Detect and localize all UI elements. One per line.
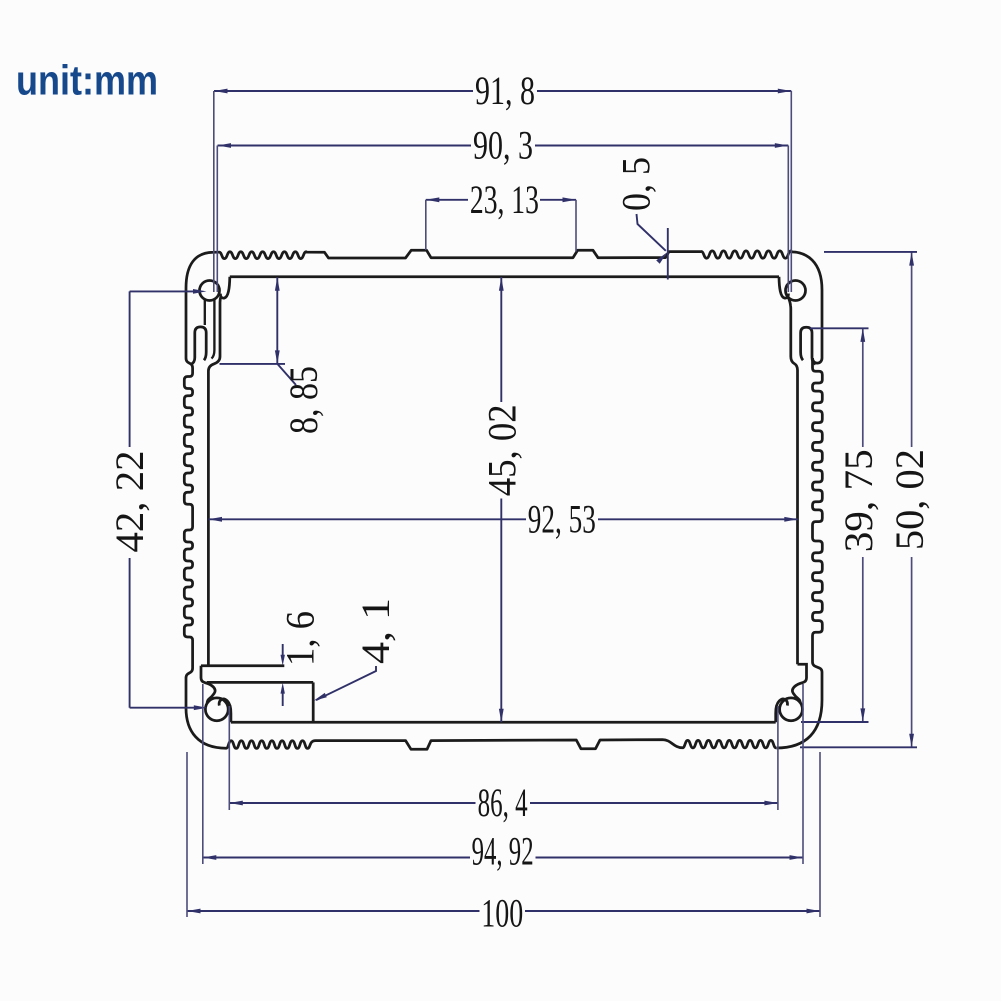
dim 1,6 text — [278, 611, 323, 666]
dim 90,3 text — [473, 123, 533, 168]
dim 86,4 ext left — [228, 706, 230, 810]
dim 94,92 text — [472, 828, 534, 873]
dim 50,02 ext top — [824, 251, 917, 253]
top-left slot lip and tail — [208, 277, 229, 371]
dim 90,3 line — [218, 143, 789, 148]
inner top edge — [230, 275, 779, 278]
dim 94,92 ext right — [802, 684, 804, 864]
bottom-right inner wall jog — [792, 664, 806, 703]
dim 1,6 lower — [281, 683, 285, 706]
top-right screw hole — [786, 281, 806, 301]
svg-text:39, 75: 39, 75 — [836, 449, 881, 552]
dim 42,22 ext top — [130, 289, 207, 294]
profile outer contour top — [186, 250, 822, 363]
bottom-right slot right lip — [776, 699, 788, 722]
left wall upper step — [186, 288, 193, 368]
svg-text:42, 22: 42, 22 — [107, 451, 152, 553]
dim 100 text — [481, 890, 523, 935]
svg-text:0, 5: 0, 5 — [614, 157, 659, 211]
svg-text:92, 53: 92, 53 — [528, 496, 596, 541]
right inner wall — [796, 370, 799, 664]
dim 100 ext left — [186, 752, 188, 917]
dim 91,8 ext right — [790, 91, 792, 292]
dim 42,22 text — [107, 451, 152, 553]
dim 92,53 text — [528, 496, 596, 541]
dim 4,1 text — [353, 598, 398, 664]
dim 23,13 text — [470, 177, 539, 222]
dim 0,5 text — [614, 157, 659, 211]
bottom edge with serrations — [186, 708, 776, 749]
svg-text:90, 3: 90, 3 — [473, 123, 533, 168]
svg-text:unit:mm: unit:mm — [16, 58, 158, 104]
dim 23,13 ext right — [575, 200, 577, 252]
dim 39,75 text — [836, 449, 881, 552]
unit label — [16, 58, 158, 104]
left wall fin teeth — [184, 368, 192, 668]
dim 4,1 leader — [314, 666, 376, 701]
left wall lower step — [186, 668, 193, 708]
dim 0,5 tick — [667, 228, 669, 280]
dim 100 line — [187, 909, 820, 914]
dim 42,22 ext bottom — [130, 705, 208, 710]
svg-text:86, 4: 86, 4 — [478, 780, 528, 825]
dim 100 ext right — [819, 752, 821, 917]
dim 91,8 line — [214, 89, 791, 94]
svg-text:45, 02: 45, 02 — [479, 404, 524, 496]
dim 23,13 line — [426, 197, 576, 202]
dim 86,4 line — [229, 801, 778, 806]
dim 45,02 text — [479, 404, 524, 496]
dim 39,75 ext top — [810, 327, 869, 329]
dim 8,85 text — [281, 366, 326, 434]
top-left hollow bulge — [191, 327, 206, 364]
dim 86,4 text — [478, 780, 528, 825]
pcb shelf bottom line — [207, 681, 313, 684]
svg-text:91, 8: 91, 8 — [475, 68, 535, 113]
dim 23,13 ext left — [425, 200, 427, 250]
bottom-left slot right lip — [219, 699, 231, 722]
dim 90,3 ext right — [787, 146, 789, 293]
right wall lower + bottom-right corner — [776, 662, 822, 748]
dim 94,92 line — [203, 855, 803, 860]
svg-text:4, 1: 4, 1 — [353, 598, 398, 664]
dim 91,8 text — [475, 68, 535, 113]
dim 39,75 line — [860, 328, 865, 722]
dim 42,22 line — [129, 291, 131, 707]
dim 50,02 line — [909, 252, 914, 747]
top-left screw hole — [200, 281, 220, 301]
left inner wall — [207, 371, 210, 666]
svg-text:1, 6: 1, 6 — [278, 611, 323, 666]
top-right slot lip and tail — [779, 277, 798, 370]
bottom-left slot left lip — [201, 666, 215, 704]
dim 8,85 ext bottom — [220, 363, 286, 365]
dim 94,92 ext left — [202, 684, 204, 864]
svg-text:8, 85: 8, 85 — [281, 366, 326, 434]
dim 8,85 line — [275, 277, 280, 364]
top-right hollow bulge — [801, 327, 816, 364]
svg-text:50, 02: 50, 02 — [887, 449, 932, 550]
dim 50,02 ext bottom — [800, 746, 917, 748]
dim 39,75 ext bottom — [801, 721, 869, 723]
dim 91,8 ext left — [213, 91, 215, 292]
bottom-left screw hole — [205, 698, 228, 721]
pcb shelf right edge — [312, 682, 315, 722]
svg-text:94, 92: 94, 92 — [472, 828, 534, 873]
dim 86,4 ext right — [777, 706, 779, 810]
dim 90,3 ext left — [216, 146, 218, 293]
dim 45,02 line — [499, 277, 504, 722]
svg-text:23, 13: 23, 13 — [470, 177, 539, 222]
pcb shelf top line — [201, 664, 284, 667]
inner bottom floor — [231, 721, 776, 724]
dim 50,02 text — [887, 449, 932, 550]
bottom-right screw hole — [780, 698, 803, 721]
dim 1,6 upper — [281, 644, 285, 666]
dim 8,85 leader — [278, 364, 297, 385]
dim 92,53 line — [209, 517, 798, 522]
top-left screw cavity — [205, 299, 215, 359]
dim 0,5 leader — [637, 214, 668, 264]
right wall fin teeth — [813, 358, 823, 662]
svg-text:100: 100 — [481, 890, 523, 935]
